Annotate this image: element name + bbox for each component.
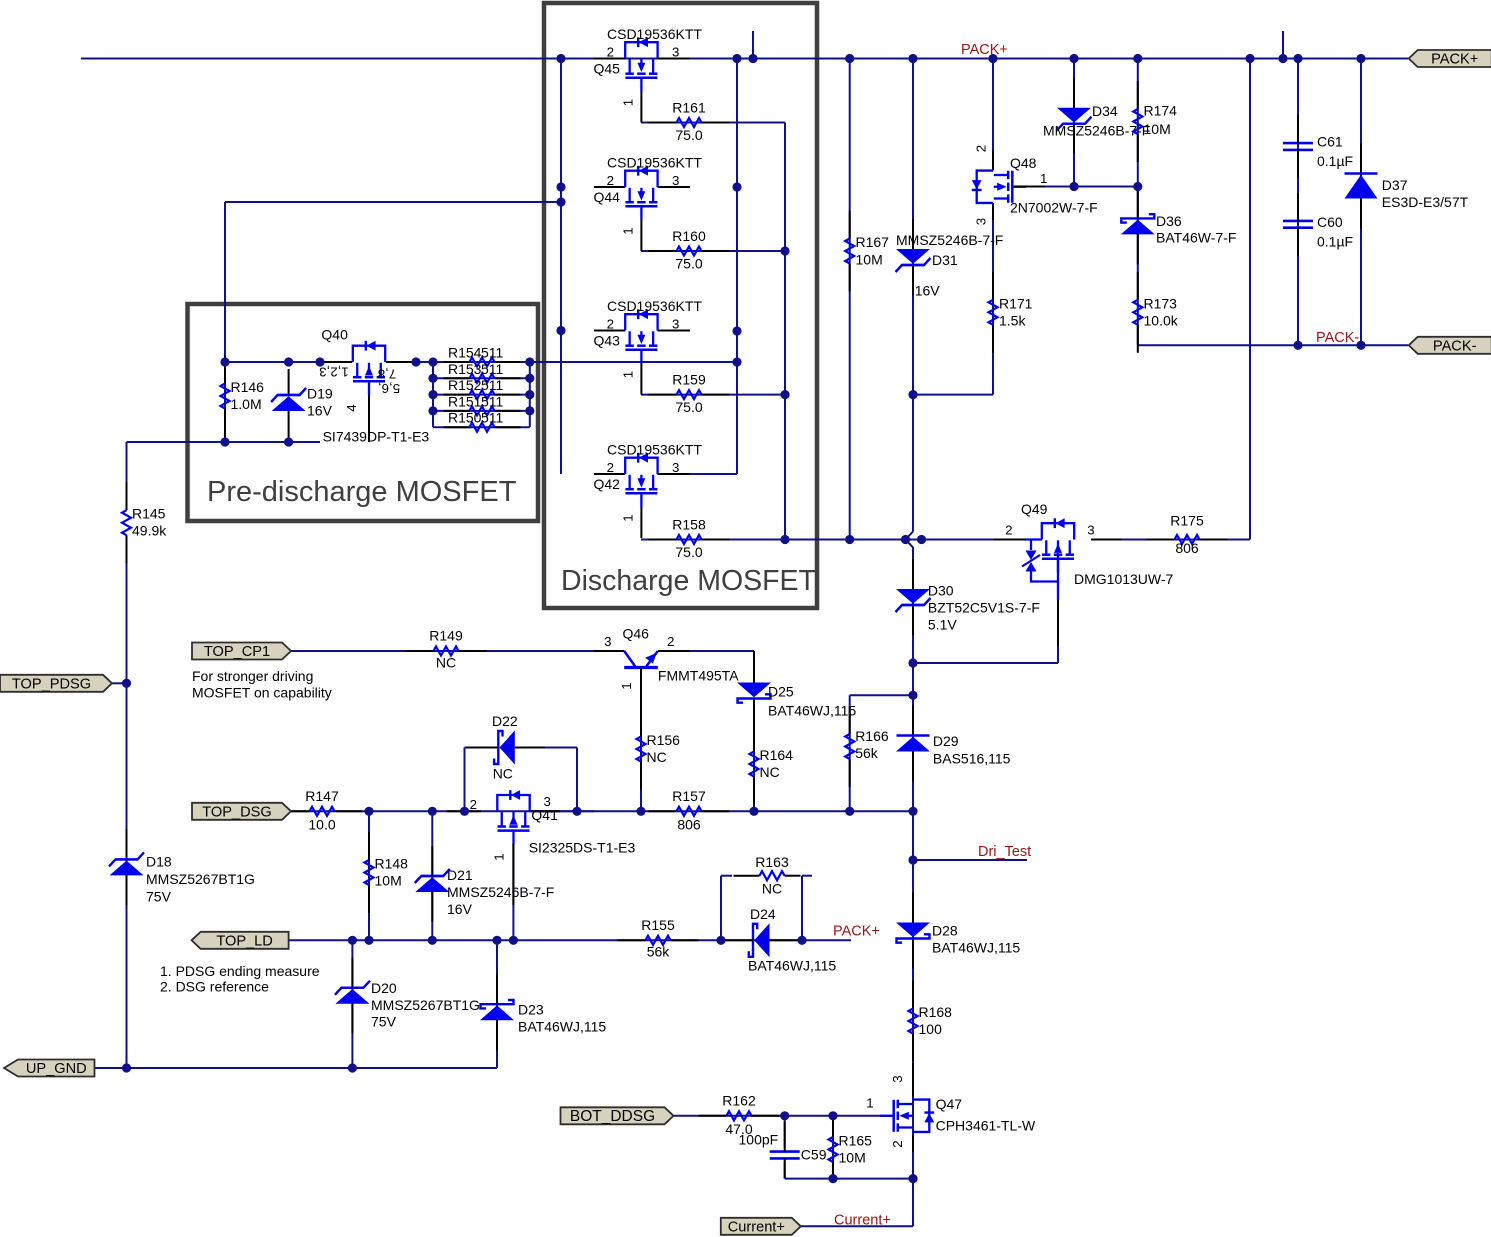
svg-text:R166: R166: [855, 728, 889, 744]
svg-text:R152: R152: [448, 377, 482, 393]
svg-text:R174: R174: [1144, 102, 1178, 118]
svg-text:D21: D21: [447, 867, 473, 883]
svg-text:D28: D28: [932, 923, 958, 939]
svg-text:16V: 16V: [447, 901, 473, 917]
svg-text:Q43: Q43: [594, 333, 621, 349]
svg-text:4: 4: [344, 404, 359, 411]
svg-text:MMSZ5267BT1G: MMSZ5267BT1G: [371, 997, 480, 1013]
svg-text:R158: R158: [672, 517, 706, 533]
svg-text:BAS516,115: BAS516,115: [933, 751, 1011, 767]
svg-text:BAT46WJ,115: BAT46WJ,115: [518, 1019, 606, 1035]
svg-text:100pF: 100pF: [739, 1131, 779, 1147]
svg-text:3: 3: [890, 1075, 905, 1082]
svg-text:NC: NC: [647, 749, 667, 765]
svg-text:D25: D25: [768, 684, 794, 700]
svg-text:R153: R153: [448, 361, 482, 377]
svg-text:Pre-discharge MOSFET: Pre-discharge MOSFET: [207, 476, 517, 508]
svg-text:R146: R146: [231, 379, 265, 395]
svg-text:MOSFET on capability: MOSFET on capability: [192, 685, 332, 701]
svg-text:TOP_LD: TOP_LD: [216, 933, 273, 949]
svg-text:1: 1: [621, 371, 636, 378]
svg-text:D31: D31: [932, 252, 958, 268]
svg-text:R155: R155: [641, 917, 675, 933]
svg-text:D37: D37: [1382, 177, 1408, 193]
svg-text:1: 1: [621, 514, 636, 521]
svg-text:R160: R160: [672, 228, 706, 244]
svg-text:511: 511: [481, 361, 504, 377]
svg-text:C60: C60: [1317, 214, 1343, 230]
svg-text:MMSZ5267BT1G: MMSZ5267BT1G: [146, 871, 255, 887]
svg-text:Q44: Q44: [594, 189, 621, 205]
svg-text:C61: C61: [1317, 134, 1343, 150]
svg-text:16V: 16V: [307, 403, 333, 419]
svg-text:R165: R165: [839, 1133, 873, 1149]
svg-text:TOP_CP1: TOP_CP1: [204, 644, 270, 660]
svg-text:Q49: Q49: [1021, 501, 1048, 517]
svg-text:R148: R148: [375, 856, 409, 872]
svg-text:PACK+: PACK+: [961, 42, 1008, 58]
svg-text:3: 3: [974, 218, 989, 225]
svg-text:10.0k: 10.0k: [1144, 312, 1179, 328]
svg-text:Current+: Current+: [834, 1213, 891, 1229]
svg-text:CSD19536KTT: CSD19536KTT: [607, 441, 702, 457]
svg-text:49.9k: 49.9k: [132, 523, 167, 539]
svg-text:MMSZ5246B-7-F: MMSZ5246B-7-F: [896, 232, 1003, 248]
svg-text:1: 1: [621, 227, 636, 234]
svg-text:CSD19536KTT: CSD19536KTT: [607, 26, 702, 42]
svg-text:75.0: 75.0: [675, 256, 702, 272]
svg-text:Dri_Test: Dri_Test: [978, 844, 1031, 860]
svg-text:R168: R168: [919, 1004, 953, 1020]
svg-text:CSD19536KTT: CSD19536KTT: [607, 298, 702, 314]
svg-text:CSD19536KTT: CSD19536KTT: [607, 154, 702, 170]
svg-text:5.1V: 5.1V: [928, 617, 957, 633]
svg-text:R157: R157: [672, 788, 706, 804]
svg-text:56k: 56k: [855, 745, 879, 761]
svg-text:R150: R150: [448, 410, 482, 426]
svg-text:Q41: Q41: [531, 807, 558, 823]
svg-text:0.1µF: 0.1µF: [1317, 153, 1353, 169]
svg-text:D29: D29: [933, 733, 959, 749]
svg-text:NC: NC: [760, 764, 780, 780]
svg-text:UP_GND: UP_GND: [26, 1061, 87, 1077]
svg-text:2: 2: [607, 45, 614, 60]
svg-text:D23: D23: [518, 1002, 544, 1018]
svg-text:511: 511: [481, 393, 504, 409]
svg-text:BZT52C5V1S-7-F: BZT52C5V1S-7-F: [928, 600, 1040, 616]
svg-text:3: 3: [672, 317, 679, 332]
svg-text:R159: R159: [672, 372, 706, 388]
svg-text:2: 2: [607, 460, 614, 475]
svg-text:5,6,: 5,6,: [378, 381, 400, 396]
svg-text:1,2,3: 1,2,3: [319, 365, 349, 380]
svg-text:R154: R154: [448, 345, 482, 361]
svg-text:806: 806: [1175, 540, 1199, 556]
svg-text:75.0: 75.0: [675, 544, 702, 560]
svg-text:R173: R173: [1144, 295, 1178, 311]
svg-text:2: 2: [667, 634, 674, 649]
svg-text:2: 2: [607, 317, 614, 332]
svg-text:1: 1: [619, 682, 634, 689]
svg-text:FMMT495TA: FMMT495TA: [658, 668, 739, 684]
svg-text:PACK+: PACK+: [1431, 52, 1478, 68]
svg-text:BAT46WJ,115: BAT46WJ,115: [932, 940, 1020, 956]
svg-text:R167: R167: [856, 234, 890, 250]
svg-text:3: 3: [1087, 522, 1094, 537]
svg-text:BAT46WJ,115: BAT46WJ,115: [748, 958, 836, 974]
svg-text:1: 1: [1040, 171, 1047, 186]
svg-text:1.5k: 1.5k: [999, 312, 1026, 328]
svg-text:1: 1: [866, 1096, 873, 1111]
svg-text:R162: R162: [722, 1092, 756, 1108]
svg-text:D24: D24: [750, 906, 776, 922]
svg-text:TOP_DSG: TOP_DSG: [202, 804, 271, 820]
svg-text:10M: 10M: [375, 873, 402, 889]
svg-text:For stronger driving: For stronger driving: [192, 668, 313, 684]
svg-text:16V: 16V: [915, 283, 941, 299]
svg-text:BAT46W-7-F: BAT46W-7-F: [1156, 229, 1236, 245]
svg-text:PACK+: PACK+: [833, 924, 880, 940]
svg-text:2: 2: [890, 1140, 905, 1147]
svg-text:1.0M: 1.0M: [231, 396, 262, 412]
svg-text:R175: R175: [1170, 513, 1204, 529]
svg-text:MMSZ5246B-7-F: MMSZ5246B-7-F: [447, 884, 554, 900]
svg-text:D22: D22: [492, 713, 518, 729]
svg-text:10M: 10M: [839, 1150, 866, 1166]
svg-text:R163: R163: [755, 854, 789, 870]
svg-text:100: 100: [919, 1021, 943, 1037]
svg-text:10M: 10M: [1144, 121, 1171, 137]
svg-text:NC: NC: [436, 655, 456, 671]
svg-text:D19: D19: [307, 386, 333, 402]
svg-text:75.0: 75.0: [675, 399, 702, 415]
svg-text:2. DSG reference: 2. DSG reference: [160, 979, 269, 995]
svg-text:75.0: 75.0: [675, 127, 702, 143]
svg-text:NC: NC: [762, 881, 782, 897]
svg-text:Q47: Q47: [936, 1096, 963, 1112]
svg-text:7,8: 7,8: [378, 367, 397, 382]
svg-text:PACK-: PACK-: [1316, 330, 1359, 346]
svg-text:3: 3: [672, 45, 679, 60]
svg-text:56k: 56k: [647, 944, 671, 960]
svg-text:511: 511: [481, 410, 504, 426]
svg-text:D36: D36: [1156, 213, 1182, 229]
svg-text:511: 511: [481, 377, 504, 393]
svg-text:2: 2: [974, 145, 989, 152]
svg-text:SI2325DS-T1-E3: SI2325DS-T1-E3: [529, 839, 636, 855]
svg-text:Q42: Q42: [594, 476, 621, 492]
svg-text:BAT46WJ,115: BAT46WJ,115: [768, 703, 856, 719]
svg-text:ES3D-E3/57T: ES3D-E3/57T: [1382, 194, 1469, 210]
svg-text:TOP_PDSG: TOP_PDSG: [12, 676, 91, 692]
svg-text:DMG1013UW-7: DMG1013UW-7: [1074, 571, 1174, 587]
svg-text:R171: R171: [999, 295, 1033, 311]
svg-text:Current+: Current+: [728, 1219, 785, 1235]
svg-text:10.0: 10.0: [308, 817, 335, 833]
svg-text:Q46: Q46: [623, 626, 650, 642]
svg-text:511: 511: [481, 345, 504, 361]
svg-text:75V: 75V: [146, 889, 172, 905]
svg-text:R149: R149: [429, 628, 463, 644]
svg-text:1: 1: [621, 99, 636, 106]
svg-text:R164: R164: [760, 747, 794, 763]
svg-text:806: 806: [677, 817, 701, 833]
svg-text:3: 3: [672, 460, 679, 475]
svg-text:2: 2: [470, 797, 477, 812]
svg-text:D18: D18: [146, 854, 172, 870]
svg-text:R156: R156: [647, 732, 681, 748]
svg-text:R145: R145: [132, 506, 166, 522]
svg-text:2N7002W-7-F: 2N7002W-7-F: [1010, 200, 1098, 216]
svg-text:Q48: Q48: [1010, 155, 1037, 171]
svg-text:R147: R147: [305, 788, 339, 804]
svg-text:R161: R161: [672, 100, 706, 116]
svg-text:R151: R151: [448, 393, 482, 409]
svg-text:Q45: Q45: [594, 61, 621, 77]
svg-text:2: 2: [1005, 522, 1012, 537]
svg-text:D20: D20: [371, 980, 397, 996]
svg-text:75V: 75V: [371, 1014, 397, 1030]
svg-text:3: 3: [604, 634, 611, 649]
svg-text:10M: 10M: [856, 252, 883, 268]
svg-text:D30: D30: [928, 583, 954, 599]
svg-text:BOT_DDSG: BOT_DDSG: [570, 1108, 655, 1125]
svg-text:CPH3461-TL-W: CPH3461-TL-W: [936, 1117, 1036, 1133]
svg-text:Q40: Q40: [321, 327, 348, 343]
svg-text:Discharge MOSFET: Discharge MOSFET: [561, 565, 816, 597]
svg-text:SI7439DP-T1-E3: SI7439DP-T1-E3: [323, 429, 430, 445]
svg-text:C59: C59: [801, 1147, 827, 1163]
svg-text:1: 1: [491, 853, 506, 860]
svg-text:NC: NC: [493, 766, 513, 782]
svg-text:D34: D34: [1092, 103, 1118, 119]
svg-text:PACK-: PACK-: [1433, 338, 1477, 354]
svg-text:2: 2: [607, 173, 614, 188]
svg-text:3: 3: [672, 173, 679, 188]
svg-text:0.1µF: 0.1µF: [1317, 234, 1353, 250]
svg-text:1. PDSG ending measure: 1. PDSG ending measure: [160, 963, 320, 979]
